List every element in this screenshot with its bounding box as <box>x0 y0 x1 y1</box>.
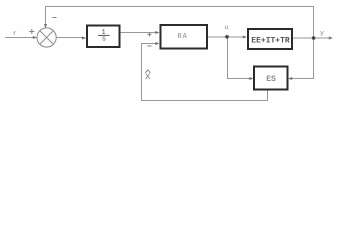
svg-text:ES: ES <box>266 75 276 84</box>
svg-text:RA: RA <box>177 33 187 41</box>
svg-text:u: u <box>224 24 228 31</box>
svg-text:s: s <box>102 36 106 44</box>
svg-text:EE+IT+TR: EE+IT+TR <box>251 36 290 45</box>
svg-text:y: y <box>320 29 324 36</box>
svg-text:x: x <box>145 72 151 83</box>
svg-text:r: r <box>13 30 17 37</box>
